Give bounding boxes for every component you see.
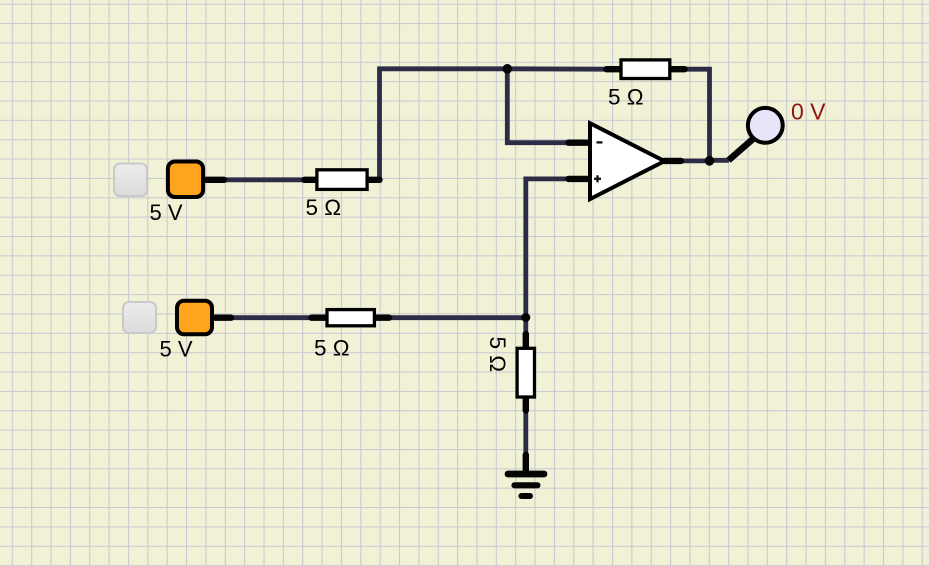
wire: resistor R4 bottom to ground	[523, 404, 528, 458]
label V1 value 5 V	[150, 200, 183, 225]
wire: bottom junction down to resistor R4	[523, 318, 528, 343]
node junction dot at non-inverting tap	[521, 313, 530, 322]
wire: source 2 to resistor R3	[222, 315, 316, 320]
wire: output node to probe (horizontal then diagonal)	[710, 139, 754, 161]
node junction dot at feedback tap	[503, 64, 513, 74]
label R1 value 5 ohm	[306, 195, 342, 220]
voltage source V2 (orange square)	[177, 301, 231, 335]
label R2 value 5 ohm	[608, 84, 644, 109]
svg-text:5 Ω: 5 Ω	[314, 335, 350, 360]
voltage probe P1	[748, 108, 783, 143]
wire: junction down and right to op-amp inverting input	[507, 69, 572, 143]
wire: resistor R1 right to corner up	[376, 177, 380, 182]
pin label minus (inverting input)	[597, 141, 603, 143]
label V2 value 5 V	[160, 337, 193, 362]
voltage source V1 (orange square)	[168, 162, 224, 198]
pin label plus (non-inverting input)	[594, 175, 601, 182]
svg-text:5 V: 5 V	[160, 337, 193, 362]
label R4 value 5 ohm (rotated)	[485, 337, 510, 373]
wire: top feedback horizontal from left corner to junction	[380, 69, 508, 180]
voltage source V1 toggle button (gray)	[114, 164, 147, 197]
op-amp U1	[569, 123, 682, 199]
wire: junction to feedback resistor left	[507, 66, 608, 71]
resistor R1 5 ohm (top input)	[305, 170, 380, 190]
resistor R4 5 ohm (to ground, vertical)	[517, 334, 534, 411]
svg-text:5 Ω: 5 Ω	[485, 337, 510, 373]
svg-text:5 Ω: 5 Ω	[306, 195, 342, 220]
resistor R3 5 ohm (bottom input)	[312, 310, 390, 326]
svg-text:5 V: 5 V	[150, 200, 183, 225]
svg-text:5 Ω: 5 Ω	[608, 84, 644, 109]
wire: non-inverting input from bottom node	[526, 179, 572, 318]
svg-text:0 V: 0 V	[791, 99, 826, 125]
wire: op-amp output to output node	[678, 158, 710, 163]
ground symbol	[508, 455, 544, 496]
node junction dot at op-amp output	[705, 156, 715, 166]
resistor R2 5 ohm (feedback)	[607, 60, 685, 79]
wire: source 1 to resistor R1	[222, 177, 308, 182]
label R3 value 5 ohm	[314, 335, 350, 360]
voltage source V2 toggle button (gray)	[123, 302, 156, 333]
wire: feedback resistor right to corner down to output node	[684, 69, 710, 161]
wire: resistor R3 right to bottom junction	[384, 315, 526, 320]
label probe reading 0 V	[791, 99, 826, 125]
